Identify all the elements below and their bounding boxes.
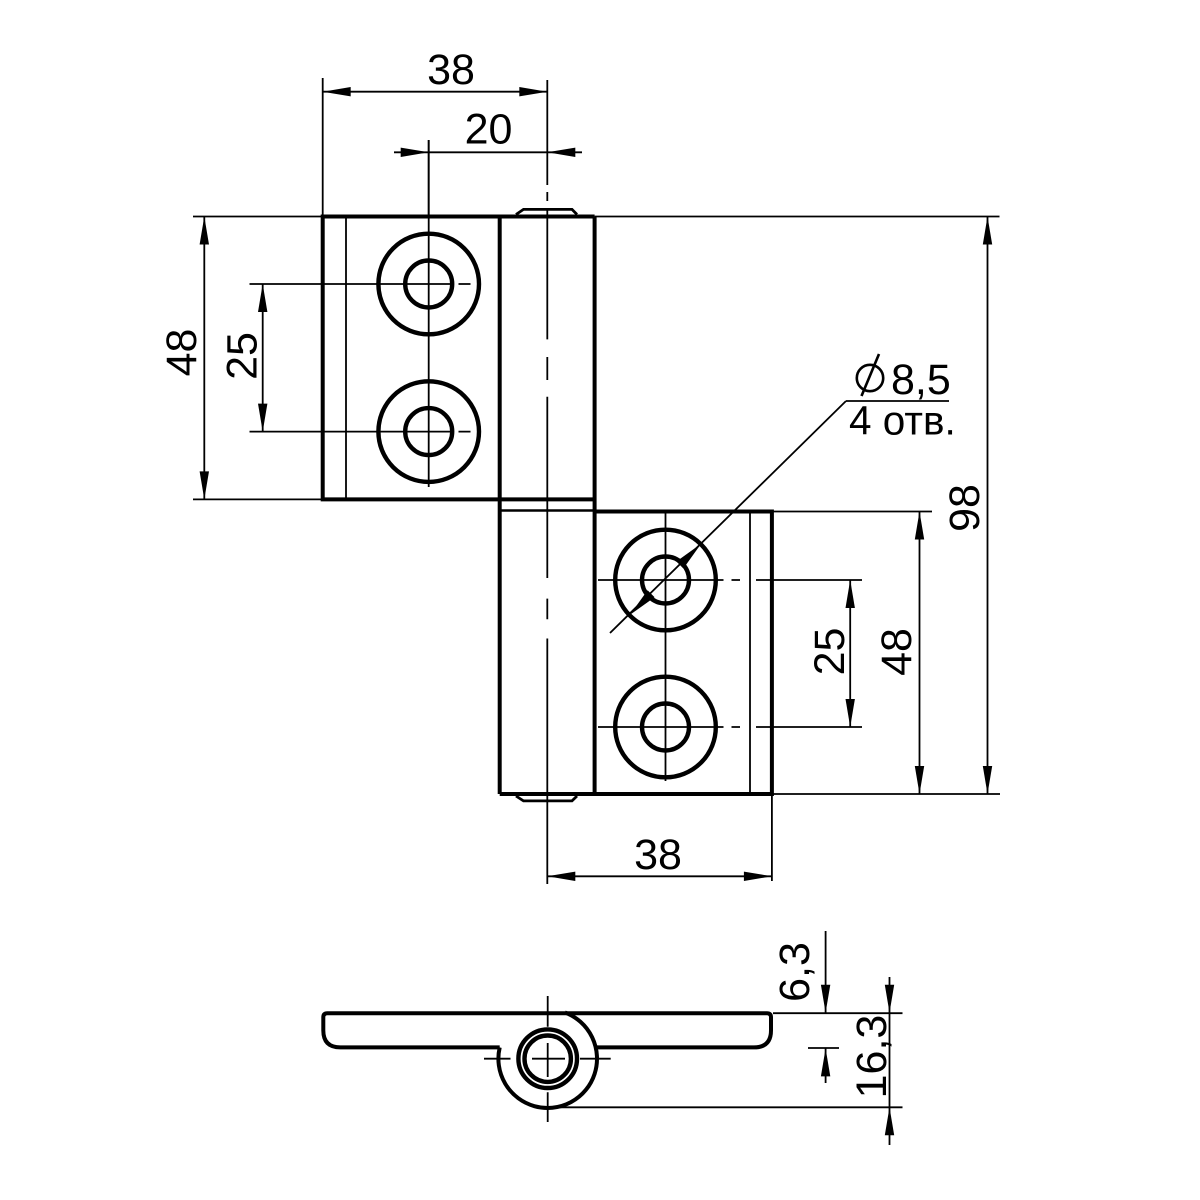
svg-text:16,3: 16,3 <box>848 1015 896 1099</box>
dim 48 left arrows <box>200 217 209 245</box>
dim 38 top dimension line <box>323 91 548 93</box>
hole B1 horizontal centerline <box>598 579 862 581</box>
svg-text:20: 20 <box>465 106 513 154</box>
left holes vertical centerline <box>428 140 430 487</box>
barrel left edge <box>498 217 502 795</box>
dim 98 top extension <box>595 216 1000 218</box>
dim 25 left dimension line <box>262 284 264 432</box>
dim 6,3 arrows <box>821 985 830 1013</box>
hole B2 outer circle <box>615 677 716 778</box>
dim 6,3 lower dimension line <box>825 1048 827 1083</box>
svg-text:25: 25 <box>806 628 854 676</box>
hole B1 outer circle <box>615 530 716 631</box>
dim 48 left dimension line <box>203 217 205 500</box>
lower leaf outline <box>500 512 772 795</box>
side view vertical centerline <box>547 996 549 1122</box>
dim 38 top extension line <box>322 78 324 215</box>
pin centerline <box>546 80 548 884</box>
barrel right edge <box>593 217 597 795</box>
dim 6,3 bottom extension <box>808 1047 839 1049</box>
callout leader line <box>610 401 846 633</box>
svg-text:38: 38 <box>427 46 475 94</box>
barrel top bump <box>516 209 577 214</box>
svg-text:48: 48 <box>873 628 921 676</box>
hole A1 inner circle <box>405 261 452 308</box>
dim 48 left bottom extension <box>193 498 323 500</box>
right holes vertical centerline <box>665 513 667 781</box>
callout shelf line <box>846 400 949 402</box>
callout diameter arrows <box>676 544 701 569</box>
dim 48 right top extension <box>772 511 932 513</box>
side view knuckle ring outer <box>518 1029 577 1088</box>
svg-text:48: 48 <box>158 329 206 377</box>
dim 98 dimension line <box>987 217 989 795</box>
hole B1 inner circle <box>642 557 689 604</box>
barrel bottom bump <box>516 796 577 801</box>
svg-text:38: 38 <box>634 831 682 879</box>
hole B2 inner circle <box>642 704 689 751</box>
hole A2 inner circle <box>405 408 452 455</box>
svg-text:4 отв.: 4 отв. <box>849 398 956 444</box>
barrel seam thin line <box>500 509 595 512</box>
dim 20 dimension line <box>394 151 582 153</box>
hole A2 horizontal centerline <box>250 431 471 433</box>
diameter symbol circle <box>857 365 883 391</box>
upper leaf rolled-edge line <box>345 217 347 500</box>
dim 38 bottom arrows <box>547 872 575 881</box>
hole B2 horizontal centerline <box>598 726 862 728</box>
side view knuckle outer arc <box>498 1013 597 1108</box>
hole A1 outer circle <box>378 234 479 335</box>
dim 20 arrows <box>401 148 429 157</box>
dim 25 left arrows <box>258 284 267 312</box>
dim 38 top arrows <box>323 87 351 96</box>
hole A2 outer circle <box>378 381 479 482</box>
dim 48/98 right bottom extension <box>772 793 1000 795</box>
dim 98 arrows <box>983 217 992 245</box>
svg-text:98: 98 <box>941 484 989 532</box>
diameter symbol slash <box>862 354 880 396</box>
side view knuckle ring inner <box>525 1036 571 1082</box>
dim 6,3 upper dimension line <box>825 931 827 1013</box>
side view horizontal centerline <box>484 1058 611 1060</box>
svg-text:6,3: 6,3 <box>771 942 819 1002</box>
dim 25 right dimension line <box>849 580 851 727</box>
dim 20 extension line <box>428 140 430 217</box>
svg-text:25: 25 <box>219 332 267 380</box>
dim 38 bottom right extension <box>771 794 773 881</box>
side view leaf profile <box>323 1013 771 1047</box>
dim 25 right arrows <box>846 580 855 608</box>
dim 16,3 arrows <box>885 985 894 1013</box>
dim 48 left top extension <box>193 216 323 218</box>
lower leaf rolled-edge line <box>749 512 751 795</box>
hole A1 horizontal centerline <box>250 283 471 285</box>
dim 48 right arrows <box>915 512 924 540</box>
upper leaf outline <box>323 217 595 500</box>
dim 38 bottom dimension line <box>547 875 772 877</box>
dim 16,3 dimension line <box>889 977 891 1145</box>
dim 48 right dimension line <box>919 512 921 795</box>
dim 6,3 top extension <box>773 1012 903 1014</box>
dim 16,3 bottom extension <box>548 1106 903 1108</box>
